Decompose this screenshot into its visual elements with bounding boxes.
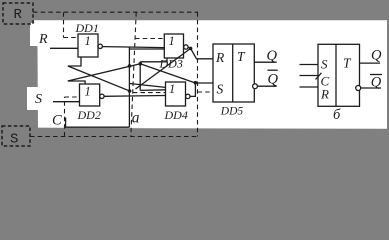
- dashed stub to DD5 S: [198, 91, 211, 93]
- svg-text:DD4: DD4: [164, 108, 188, 122]
- junction dot DD3 output node: [189, 47, 193, 51]
- dashed box R (top left): [3, 3, 33, 24]
- wire R input: [50, 47, 78, 49]
- wire DD1 out to DD3 in: [102, 47, 164, 48]
- wire to DD3 bottom stub: [140, 58, 167, 62]
- junction dot node A (v1 lower): [128, 89, 132, 93]
- junction dot node C (v2): [138, 62, 142, 66]
- dashed box S (bottom left): [2, 126, 30, 146]
- wire DD2 top hook: [68, 81, 85, 84]
- svg-text:S: S: [321, 57, 328, 72]
- wire vertical x130.5: [128, 47, 130, 128]
- svg-text:S: S: [35, 92, 42, 107]
- dashed S net line (bottom horizontal): [30, 136, 198, 138]
- dashed stub into DD4: [133, 92, 166, 94]
- white box for R input label: [30, 23, 62, 46]
- wire DD4 out: [190, 83, 195, 96]
- svg-text:R: R: [215, 50, 225, 65]
- wire DD3 out: [188, 47, 191, 48]
- svg-text:Q: Q: [371, 48, 382, 64]
- svg-text:R: R: [320, 87, 329, 102]
- wire to DD4 top input: [129, 84, 165, 88]
- svg-text:R: R: [14, 7, 23, 23]
- wire b Q out: [360, 62, 381, 64]
- svg-text:1: 1: [85, 85, 91, 99]
- svg-text:Q: Q: [371, 75, 382, 91]
- dashed vertical right (x197.5): [197, 12, 199, 136]
- gate DD3: [164, 34, 183, 58]
- wire DD5 Qbar out: [257, 85, 276, 87]
- wire b R input: [300, 86, 319, 88]
- svg-text:R: R: [38, 32, 48, 47]
- dashed vertical mid (x135): [131, 12, 136, 136]
- svg-text:1: 1: [169, 34, 175, 48]
- flip-flop b box: [318, 44, 360, 106]
- svg-text:Q: Q: [268, 72, 279, 88]
- wire S input: [53, 101, 80, 103]
- svg-text:DD3: DD3: [159, 57, 183, 71]
- svg-text:S: S: [217, 82, 224, 97]
- wire DD2 out to DD4: [104, 95, 165, 98]
- flip-flop DD5 box: [213, 44, 254, 102]
- svg-text:1: 1: [169, 82, 175, 96]
- svg-text:a: a: [132, 110, 140, 127]
- wire diag x140 to DD4 out node: [140, 64, 195, 83]
- white box for S input label: [27, 87, 56, 110]
- gate DD2: [80, 84, 100, 106]
- dashed stub into DD3: [135, 38, 164, 40]
- overline Qbar b: [370, 74, 382, 76]
- wire diag DD1 feedback: [68, 66, 130, 91]
- svg-text:1: 1: [85, 34, 91, 48]
- junction dot node B (v1 upper): [128, 64, 132, 68]
- bubble DD1: [98, 44, 102, 48]
- wire DD4 node to DD5 S: [195, 82, 213, 84]
- dashed R net line (top horizontal): [30, 12, 211, 136]
- gate DD1: [78, 34, 98, 57]
- wire diag DD2 feedback: [68, 64, 140, 81]
- svg-text:DD5: DD5: [220, 106, 244, 118]
- dashed drop to DD1 input: [64, 12, 79, 37]
- wire b C input: [300, 75, 319, 77]
- svg-text:C: C: [52, 113, 62, 129]
- wire C bottom path: [66, 118, 130, 128]
- dynamic C tick: [316, 73, 322, 80]
- white panel: [34, 20, 387, 129]
- gate DD4: [166, 82, 186, 106]
- svg-text:S: S: [10, 132, 18, 148]
- wire to DD4 mid input: [140, 89, 165, 92]
- overline Qbar DD5: [268, 69, 278, 71]
- bubble DD3: [184, 45, 188, 49]
- wire diag to DD5 R: [191, 48, 213, 58]
- bubble DD2: [100, 94, 104, 98]
- svg-text:DD1: DD1: [75, 21, 99, 35]
- wire DD1 bottom hook: [68, 57, 81, 66]
- bubble b Qbar: [356, 86, 361, 91]
- junction dot DD4 output node: [194, 81, 198, 85]
- svg-text:Q: Q: [267, 48, 278, 64]
- svg-text:б: б: [333, 107, 341, 123]
- dashed rise to DD2 input: [65, 97, 80, 137]
- wire b Qbar out: [361, 87, 381, 89]
- svg-text:DD2: DD2: [77, 108, 101, 122]
- wire b S input: [300, 64, 319, 66]
- bubble DD5 Qbar: [253, 84, 258, 89]
- gray background: [0, 0, 389, 150]
- wire DD5 Q out: [254, 61, 276, 63]
- bubble DD4: [186, 94, 190, 98]
- wire DD3 second input: [129, 48, 164, 50]
- wire diag DD3 out down-left: [136, 49, 191, 90]
- dashed stub to DD5 R: [198, 58, 211, 60]
- wire vertical x140.2: [139, 62, 141, 91]
